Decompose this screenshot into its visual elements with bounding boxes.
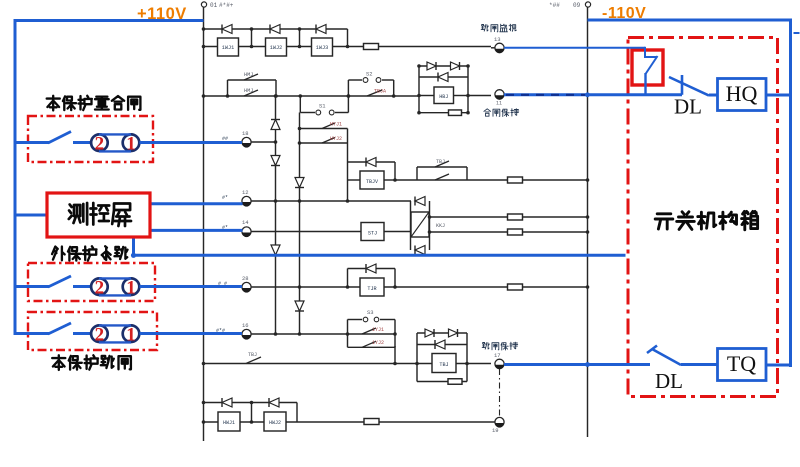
svg-text:#*: #* [222,195,228,201]
svg-text:+110V: +110V [137,5,187,23]
svg-text:S1: S1 [319,103,326,110]
svg-text:1: 1 [126,277,136,298]
svg-text:1WJ2: 1WJ2 [270,45,282,51]
svg-text:HMJ: HMJ [244,72,253,78]
svg-text:1WJ3: 1WJ3 [316,45,328,51]
svg-text:1WJ1: 1WJ1 [222,45,234,51]
svg-text:28: 28 [242,275,249,282]
svg-text:DL: DL [674,95,702,119]
svg-text:TBJ: TBJ [436,159,445,165]
svg-text:HWJ1: HWJ1 [223,420,235,426]
svg-text:HQ: HQ [726,81,758,106]
svg-text:18: 18 [242,130,249,137]
svg-text:17: 17 [494,352,501,359]
svg-text:1: 1 [126,133,136,154]
svg-text:KKJ: KKJ [436,223,445,229]
svg-text:STJ: STJ [368,231,377,237]
svg-text:HWJ2: HWJ2 [269,420,281,426]
svg-text:-110V: -110V [602,5,646,22]
svg-text:HYJ1: HYJ1 [330,122,342,128]
svg-text:11: 11 [496,101,502,107]
svg-text:S3: S3 [367,309,374,316]
svg-text:TBJA: TBJA [374,89,386,95]
svg-text:2: 2 [95,324,105,345]
svg-text:16: 16 [242,322,249,329]
svg-text:TBJ: TBJ [439,362,448,368]
svg-text:*##: *## [549,2,560,9]
svg-text:DL: DL [655,369,683,393]
svg-text:19: 19 [492,427,499,434]
svg-text:2: 2 [95,133,105,154]
svg-text:2: 2 [95,277,105,298]
svg-text:S2: S2 [366,71,373,78]
svg-text:HMJ: HMJ [244,88,253,94]
svg-text:#*#+: #*#+ [219,2,234,9]
svg-text:1: 1 [126,324,136,345]
svg-text:09: 09 [573,2,581,9]
svg-text:1YJ2: 1YJ2 [372,340,384,346]
svg-text:12: 12 [242,189,249,196]
svg-text:TQ: TQ [727,351,756,376]
svg-text:TBJ: TBJ [248,352,257,358]
svg-text:13: 13 [494,36,501,43]
svg-text:1YJ1: 1YJ1 [372,327,384,333]
svg-text:01: 01 [210,2,218,9]
svg-text:TBJV: TBJV [366,179,378,185]
svg-text:HYJ2: HYJ2 [330,136,342,142]
svg-text:HBJ: HBJ [439,94,448,100]
svg-text:TJR: TJR [367,286,376,292]
svg-text:14: 14 [242,219,249,226]
